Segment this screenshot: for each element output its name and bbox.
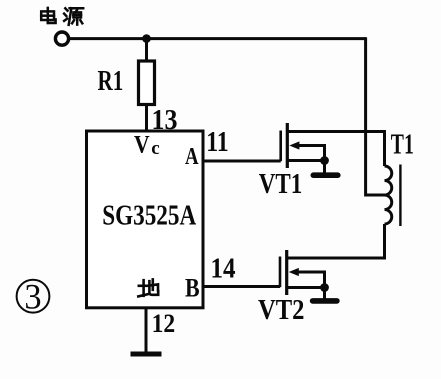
power input terminal — [55, 32, 68, 45]
transformer T1 primary winding — [287, 166, 392, 258]
wire: pin 14 lead — [203, 285, 280, 288]
svg-text:A: A — [185, 144, 199, 170]
svg-text:VT1: VT1 — [259, 169, 303, 200]
svg-text:SG3525A: SG3525A — [102, 201, 197, 232]
ground (VT1 source) — [313, 172, 338, 178]
svg-text:T1: T1 — [391, 129, 414, 160]
wire: VT2 source to ground — [323, 288, 326, 300]
svg-text:V: V — [134, 132, 150, 159]
svg-text:11: 11 — [206, 127, 229, 158]
wire: power vertical down to transformer center tap — [366, 37, 385, 195]
wire: R1 bottom to IC pin 13 — [145, 105, 148, 132]
circled figure number 3 — [17, 280, 50, 313]
resistor R1 — [139, 61, 155, 105]
svg-text:R1: R1 — [98, 66, 124, 97]
svg-text:3: 3 — [24, 277, 41, 317]
ground (pin 12) — [131, 352, 162, 357]
junction dot at power rail / R1 — [142, 34, 151, 43]
transistor VT2 (MOSFET) — [280, 250, 385, 295]
label 电源 (power supply) — [41, 8, 83, 25]
IC U1 SG3525A box — [87, 131, 204, 308]
wire: pin 12 lead — [145, 308, 148, 352]
wire: junction to R1 top — [145, 39, 148, 61]
svg-text:c: c — [151, 138, 159, 159]
svg-text:14: 14 — [211, 254, 236, 285]
transistor VT1 (MOSFET) — [281, 123, 385, 168]
svg-text:VT2: VT2 — [258, 295, 305, 326]
wire: VT1 source to ground — [323, 161, 326, 174]
svg-text:12: 12 — [152, 309, 176, 338]
wire: power rail from terminal to top-right corner — [70, 37, 366, 40]
ground (VT2 source) — [313, 298, 337, 304]
svg-text:B: B — [185, 274, 200, 303]
transformer T1 core — [399, 165, 401, 227]
wire: pin 11 lead — [203, 160, 281, 163]
pin label 地 (ground) — [138, 279, 158, 296]
